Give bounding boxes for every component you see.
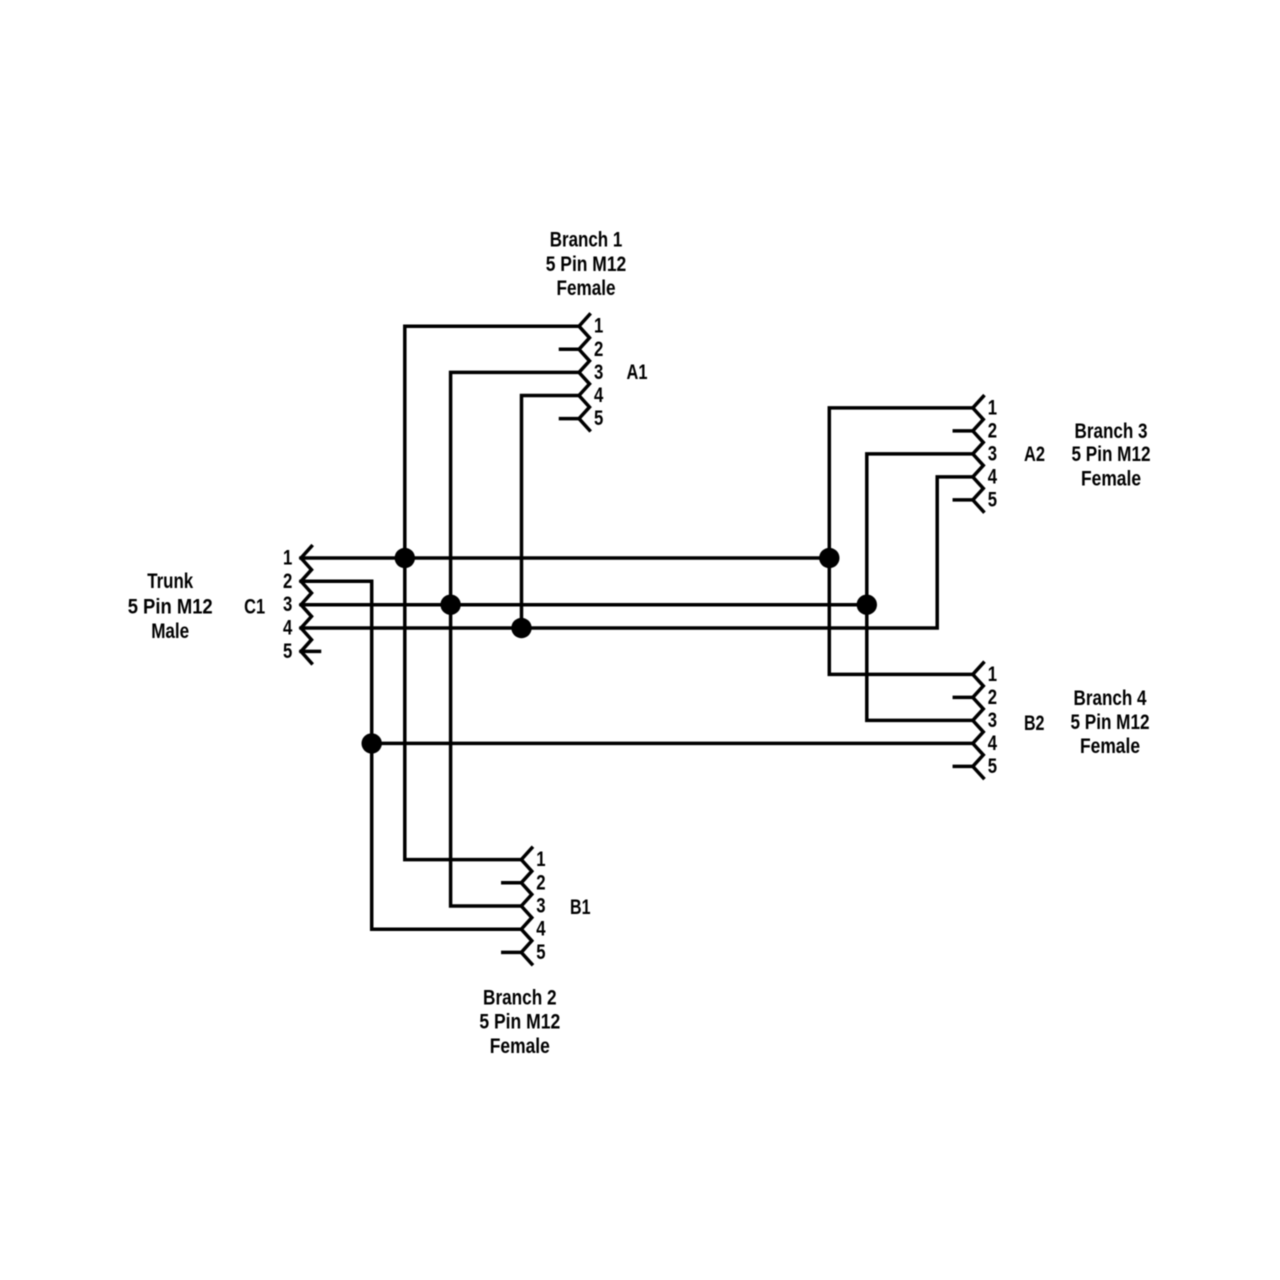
svg-text:B1: B1 (570, 896, 591, 919)
svg-text:A2: A2 (1024, 443, 1045, 466)
svg-text:2: 2 (536, 871, 545, 894)
svg-text:5 Pin M12: 5 Pin M12 (479, 1011, 560, 1034)
svg-text:Trunk: Trunk (147, 570, 193, 593)
wire A1 pin5 stub (561, 417, 580, 421)
connector C1 Trunk 5-pin M12 male zigzag (301, 546, 312, 663)
svg-text:5 Pin M12: 5 Pin M12 (1071, 711, 1150, 734)
svg-text:5: 5 (594, 407, 604, 430)
junction net1 / A2-B2 drop (819, 548, 839, 568)
wire net1 branch: A2 pin1 to B2 pin1 (829, 408, 973, 675)
svg-text:1: 1 (283, 547, 293, 570)
svg-text:1: 1 (988, 663, 998, 686)
svg-text:5 Pin M12: 5 Pin M12 (128, 596, 213, 619)
svg-text:Branch 2: Branch 2 (483, 986, 557, 1009)
svg-text:3: 3 (988, 442, 997, 465)
svg-text:5: 5 (988, 488, 998, 511)
junction net1 / A1-B1 drop (395, 548, 415, 568)
wire B2 pin5 stub (954, 765, 973, 769)
svg-text:2: 2 (594, 338, 603, 361)
junction net3 / A1-B1 drop (440, 595, 460, 615)
svg-text:4: 4 (283, 617, 293, 640)
connector B1 Branch 2 female zigzag (521, 848, 532, 964)
svg-text:Male: Male (151, 620, 189, 643)
svg-text:C1: C1 (244, 596, 265, 619)
svg-text:B2: B2 (1024, 712, 1045, 735)
svg-text:2: 2 (283, 570, 292, 593)
wire A2 pin5 stub (954, 498, 973, 502)
wire net1 branch: A1 pin1 to B1 pin1 (405, 326, 579, 859)
junction net4 / A1 pin4 drop (511, 618, 531, 638)
wire A1 pin2 stub (561, 348, 580, 352)
wire A2 pin2 stub (954, 429, 973, 433)
wire net1: trunk pin1 bus (301, 556, 829, 560)
wire net4 branch: A1 pin4 drop (522, 396, 580, 629)
svg-text:4: 4 (536, 918, 546, 941)
wire B1 pin2 stub (503, 881, 522, 885)
connector A1 Branch 1 female zigzag (579, 315, 590, 431)
svg-text:A1: A1 (627, 361, 648, 384)
svg-text:2: 2 (988, 419, 997, 442)
junction net2 / B2 pin4 tap (362, 733, 382, 753)
svg-text:3: 3 (594, 361, 603, 384)
svg-text:4: 4 (988, 465, 998, 488)
svg-text:1: 1 (536, 848, 546, 871)
svg-text:5 Pin M12: 5 Pin M12 (546, 253, 627, 276)
wire B1 pin5 stub (503, 951, 522, 955)
wire net3: trunk pin3 bus (301, 603, 867, 607)
svg-text:3: 3 (283, 593, 292, 616)
wire net3 branch: A1 pin3 to B1 pin3 (451, 372, 579, 906)
wire net4: trunk pin4 to A2 pin4 (301, 477, 973, 628)
connector B2 Branch 4 female zigzag (973, 663, 984, 778)
svg-text:Female: Female (1081, 468, 1141, 491)
svg-text:Branch 4: Branch 4 (1074, 687, 1147, 710)
svg-text:2: 2 (988, 686, 997, 709)
svg-text:5: 5 (536, 941, 546, 964)
svg-text:5 Pin M12: 5 Pin M12 (1072, 443, 1151, 466)
svg-text:Female: Female (490, 1035, 550, 1058)
svg-text:1: 1 (988, 396, 998, 419)
svg-text:Branch 3: Branch 3 (1075, 420, 1148, 443)
svg-text:4: 4 (988, 732, 998, 755)
wire net3 branch: A2 pin3 to B2 pin3 (867, 454, 973, 721)
svg-text:5: 5 (283, 640, 293, 663)
svg-text:1: 1 (594, 315, 604, 338)
svg-text:Female: Female (1080, 735, 1140, 758)
svg-text:Female: Female (557, 277, 616, 300)
svg-text:3: 3 (536, 895, 545, 918)
svg-text:Branch 1: Branch 1 (550, 229, 623, 252)
junction net3 / A2-B2 drop (857, 595, 877, 615)
svg-text:3: 3 (988, 709, 997, 732)
wire B2 pin2 stub (954, 696, 973, 700)
svg-text:4: 4 (594, 384, 604, 407)
wire trunk C1 pin5 stub (301, 650, 320, 654)
wire net2: trunk pin2 to B1 pin4 (301, 581, 521, 929)
wire net2 branch: junction to B2 pin4 (372, 742, 973, 746)
connector A2 Branch 3 female zigzag (973, 396, 984, 511)
svg-text:5: 5 (988, 755, 998, 778)
